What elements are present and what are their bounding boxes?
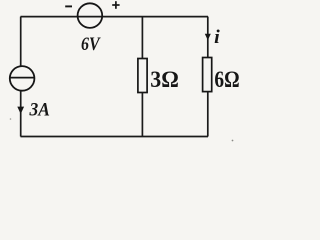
current source Is 3A (circle with horizontal bar) <box>10 66 35 91</box>
wire middle branch upper segment <box>141 17 143 59</box>
resistor R2 6ohm (rectangle body) <box>203 58 212 92</box>
wire top (node between sources and resistors) <box>21 16 209 18</box>
speck bottom right <box>232 140 234 142</box>
minus polarity mark of 6V source <box>65 5 72 7</box>
current direction arrowhead of 3A source <box>17 107 24 114</box>
voltage source Vs 6V (circle on top wire) <box>78 3 103 28</box>
wire right branch lower segment <box>207 92 209 137</box>
svg-text:3A: 3A <box>29 100 50 121</box>
wire below current source to bottom node <box>20 91 22 136</box>
svg-text:6Ω: 6Ω <box>214 67 239 93</box>
svg-text:3Ω: 3Ω <box>150 67 179 93</box>
current i arrowhead on right branch <box>205 34 211 40</box>
wire left vertical (top node to current source) <box>20 17 22 66</box>
plus polarity mark of 6V source <box>112 1 119 9</box>
speck left margin <box>10 118 12 120</box>
wire bottom (bottom node) <box>21 136 209 138</box>
svg-text:i: i <box>214 28 221 48</box>
resistor R1 3ohm (rectangle body) <box>138 59 147 93</box>
svg-text:6V: 6V <box>81 34 101 55</box>
wire right branch upper segment <box>207 17 209 58</box>
bar inside current source <box>10 77 34 79</box>
wire middle branch lower segment <box>141 93 143 137</box>
